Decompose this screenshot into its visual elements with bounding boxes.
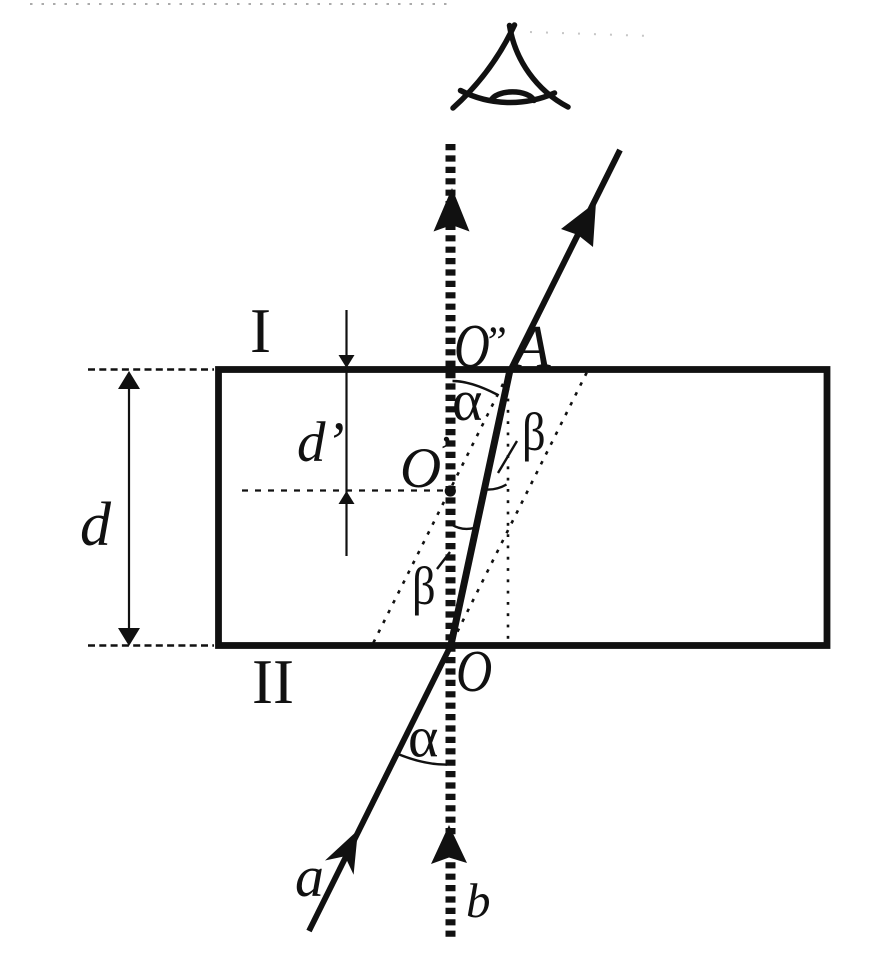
- glass slab rectangle: [219, 370, 828, 646]
- svg-text:β: β: [412, 556, 436, 616]
- svg-text:”: ”: [483, 319, 507, 366]
- leader line beta bottom: [437, 552, 450, 569]
- arrowhead ray b top: [434, 188, 470, 232]
- arrowhead exit ray: [561, 202, 596, 247]
- leader line beta top: [498, 441, 517, 473]
- svg-text:O: O: [400, 437, 441, 500]
- dotted extension of exit ray through O': [372, 374, 508, 646]
- svg-text:A: A: [510, 314, 551, 380]
- eye symbol: [453, 25, 568, 108]
- svg-text:b: b: [466, 873, 491, 928]
- angle arc beta at O: [452, 525, 475, 529]
- refracted ray O to A: [451, 370, 511, 647]
- incident ray a: [309, 644, 452, 931]
- dashed extension line bottom-left: [88, 644, 214, 646]
- svg-text:α: α: [408, 705, 438, 770]
- angle arc alpha at O'': [453, 381, 498, 395]
- svg-text:d’: d’: [297, 411, 344, 474]
- dimension arrow d: [118, 371, 140, 646]
- svg-text:a: a: [295, 844, 324, 909]
- point O' dot: [445, 485, 456, 496]
- arrowhead ray b bottom: [431, 825, 467, 864]
- dotted extension of incident ray through O: [453, 368, 590, 642]
- dotted normal at A: [507, 376, 510, 640]
- svg-text:II: II: [252, 647, 294, 717]
- scan speck row top: [30, 3, 452, 5]
- arrowhead ray a: [325, 830, 358, 875]
- ray b dotted vertical line: [446, 144, 456, 938]
- angle arc beta at A: [487, 485, 507, 490]
- dashed extension line top-left: [88, 368, 214, 370]
- svg-text:β: β: [522, 402, 546, 462]
- exit ray from A: [510, 150, 620, 371]
- svg-text:I: I: [250, 296, 271, 366]
- svg-text:O: O: [456, 638, 492, 704]
- angle arc alpha at O: [396, 753, 448, 765]
- horizontal dotted line at O' level: [242, 489, 443, 491]
- scan speck row upper right: [530, 32, 650, 36]
- dimension line d': [339, 310, 355, 556]
- svg-text:d: d: [80, 491, 112, 559]
